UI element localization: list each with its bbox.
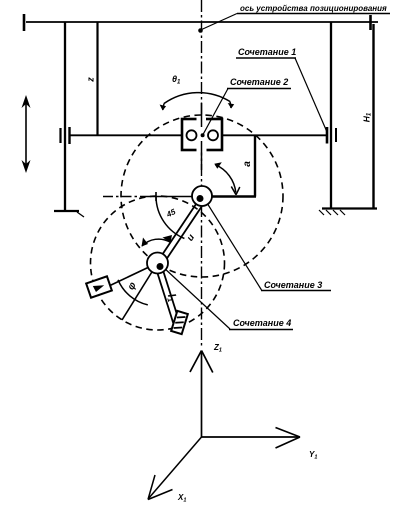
svg-text:Сочетание 4: Сочетание 4 xyxy=(233,318,291,328)
svg-text:ось устройства позиционировани: ось устройства позиционирования xyxy=(240,4,387,13)
svg-text:Сочетание 2: Сочетание 2 xyxy=(230,77,288,87)
svg-text:Сочетание 3: Сочетание 3 xyxy=(264,280,322,290)
svg-text:Сочетание 1: Сочетание 1 xyxy=(238,47,296,57)
svg-text:z: z xyxy=(86,77,96,83)
svg-text:a: a xyxy=(242,161,253,167)
